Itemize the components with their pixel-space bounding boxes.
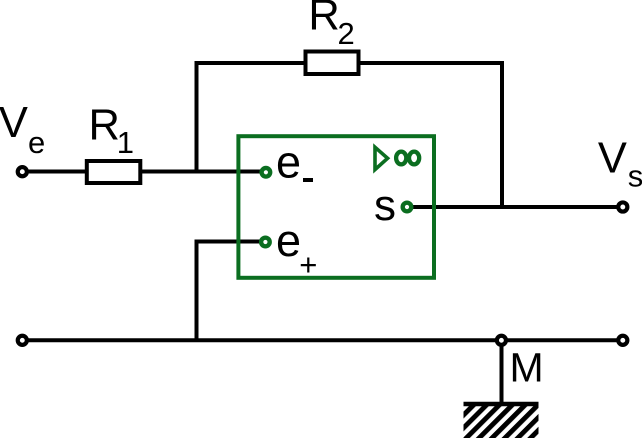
wire: bottom ground rail [22,338,623,342]
wire: e+ horizontal [197,240,264,244]
svg-text:2: 2 [338,16,355,51]
svg-text:V: V [598,135,627,183]
resistor R2 [306,52,359,75]
svg-text:s: s [628,159,642,194]
svg-text:R: R [89,101,120,149]
terminal Ve [18,167,27,176]
svg-text:M: M [510,345,544,391]
svg-text:+: + [299,247,317,282]
svg-text:1: 1 [117,125,134,160]
wire: output s to Vs [408,205,623,209]
svg-text:e: e [276,215,301,266]
node M junction [497,336,506,345]
svg-text:V: V [0,99,28,147]
svg-text:s: s [374,181,396,230]
op-amp U1 body [238,136,434,278]
terminal Vs [618,202,627,211]
terminal bottom-right [618,336,627,345]
wire: input Ve to e- pin [22,170,263,174]
op-amp infinite-gain symbol: infinity [396,152,406,165]
terminal bottom-left [18,336,27,345]
wire: top feedback rail [197,61,503,65]
pin e- (inverting input) [262,168,271,177]
wire: right feedback vertical [500,61,504,207]
wire: e+ vertical down to ground rail [195,240,199,341]
svg-text:e: e [276,137,301,188]
svg-text:R: R [308,0,339,40]
pin e+ (non-inverting input) [261,238,270,247]
wire: ground stem at node M [500,340,504,404]
resistor R1 [87,161,141,183]
pin s (output) [403,203,412,212]
svg-text:e: e [28,125,45,160]
op-amp infinite-gain symbol: triangle [375,147,388,169]
ground symbol [464,404,539,438]
wire: left feedback vertical [195,61,199,172]
